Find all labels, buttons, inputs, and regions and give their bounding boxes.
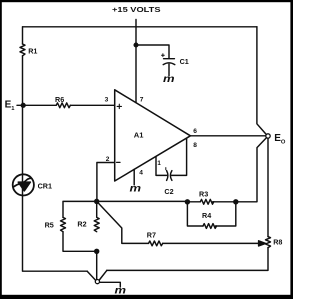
svg-text:C1: C1 (180, 57, 189, 66)
opamp plus sign (117, 104, 121, 108)
svg-text:8: 8 (193, 142, 197, 149)
svg-text:R6: R6 (55, 95, 64, 104)
resistor R1 (20, 44, 25, 56)
svg-text:R3: R3 (199, 189, 208, 198)
resistor R7 (149, 241, 163, 246)
wire R2top to R3 (97, 200, 236, 202)
wire left rail upper (22, 27, 24, 44)
node junction Ei (21, 103, 25, 107)
wire Ei input (17, 104, 56, 106)
capacitor C2 (167, 171, 168, 181)
svg-text:6: 6 (193, 128, 197, 135)
wire output pin6 (190, 135, 266, 137)
wire Eo to R3R4 (236, 138, 266, 202)
svg-text:3: 3 (105, 97, 109, 104)
svg-text:m: m (130, 184, 142, 194)
wire left rail mid+lower (23, 56, 88, 271)
resistor R8 (266, 237, 271, 248)
svg-text:+15 VOLTS: +15 VOLTS (112, 5, 161, 14)
wire R7 to wiper (163, 242, 259, 244)
svg-text:m: m (163, 74, 175, 84)
wire R8 to bottom (107, 248, 268, 271)
resistor R6 (56, 103, 70, 108)
wire R2 bottom to node (96, 251, 98, 279)
resistor R5 (61, 217, 66, 231)
resistor R4 (203, 224, 216, 229)
svg-text:R2: R2 (77, 219, 86, 228)
svg-text:1: 1 (157, 160, 161, 167)
resistor R2 (94, 201, 99, 231)
wire R8 branch upper (267, 138, 269, 236)
wire pin1 stub (156, 157, 167, 176)
svg-text:R5: R5 (45, 221, 54, 230)
capacitor C1 (164, 58, 175, 60)
op-amp A1 (115, 90, 191, 181)
wire right rail upper (257, 27, 266, 135)
wiper arrow R8 (259, 241, 266, 246)
resistor R4 loop (187, 202, 235, 226)
wire bottom node diagonals (87, 270, 107, 280)
node junction R2 top (95, 199, 99, 203)
wire pin4 stub (133, 169, 135, 185)
svg-text:R7: R7 (147, 230, 156, 239)
resistor R3 (200, 199, 213, 204)
C2 polarity tick (165, 168, 167, 170)
opamp minus sign (117, 161, 120, 163)
svg-text:C2: C2 (164, 187, 173, 196)
wire ground stub (100, 282, 121, 287)
wire C2 to pin8 (172, 138, 187, 175)
wire R5 top (63, 201, 97, 217)
node junction C1 branch (134, 43, 138, 47)
wire pin2 (97, 163, 115, 201)
svg-text:7: 7 (140, 97, 144, 104)
wire C1 branch (136, 45, 169, 58)
svg-text:R4: R4 (202, 211, 211, 220)
node junction R3 right (234, 200, 238, 204)
svg-text:R1: R1 (28, 46, 37, 55)
diode CR1 (13, 174, 34, 195)
wire top rail (23, 26, 257, 28)
node ground (open) (95, 280, 99, 284)
wire R6 to pin3 (70, 104, 114, 106)
svg-text:2: 2 (106, 156, 110, 163)
wire +15V feed (135, 20, 137, 103)
wire diagonal to R7 (97, 201, 149, 243)
node junction R2 bottom (95, 249, 99, 253)
node junction R3 left (185, 200, 189, 204)
C1 polarity mark (162, 54, 165, 57)
node Eo (open) (266, 134, 270, 138)
svg-text:4: 4 (139, 169, 143, 176)
svg-text:CR1: CR1 (38, 181, 52, 190)
wire R5 bottom (63, 232, 97, 252)
svg-text:m: m (115, 286, 127, 296)
svg-text:R8: R8 (273, 238, 282, 247)
svg-text:A1: A1 (134, 131, 144, 140)
